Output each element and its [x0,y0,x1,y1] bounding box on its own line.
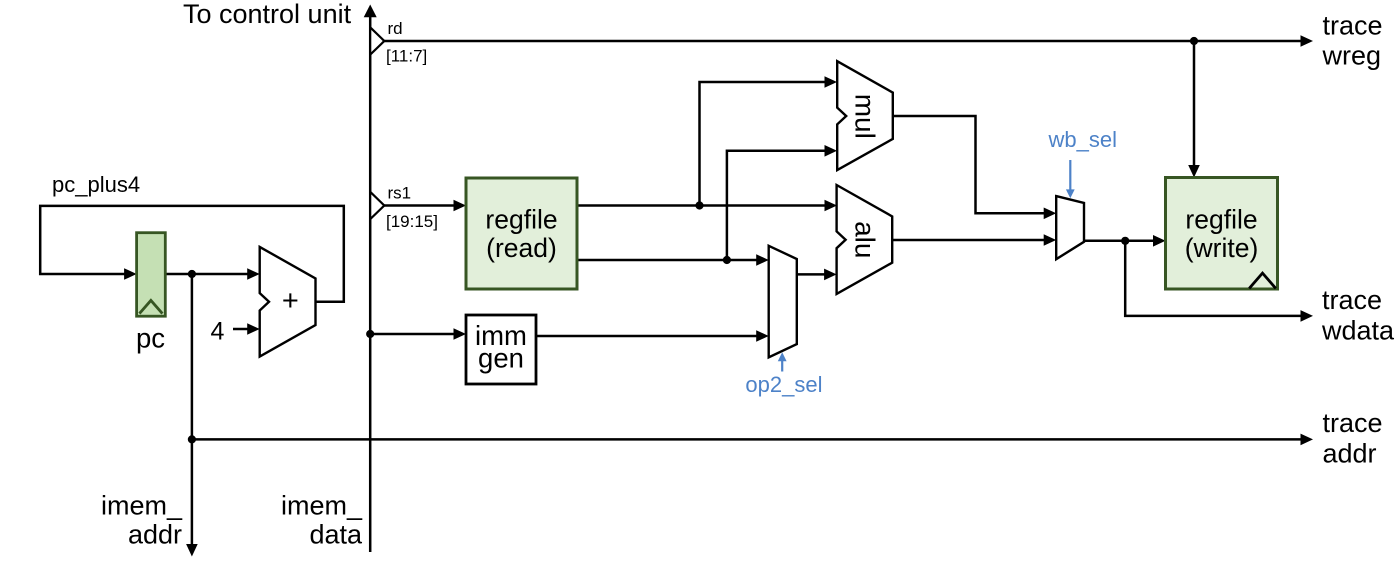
regfile (read) U-rfread [466,178,577,289]
svg-text:gen: gen [478,343,524,374]
svg-text:regfile: regfile [485,205,557,235]
wire: wb mux output to regfile write [1084,240,1162,243]
wire: branch up to mul input 2 [727,151,833,260]
junction: imm gen branch on imem_data [366,330,374,338]
svg-text:trace: trace [1323,10,1383,40]
register pc [136,233,165,354]
wire: pc output to adder input [165,273,256,276]
wire: rd down into regfile (write) [1193,41,1196,167]
svg-text:alu: alu [850,221,881,258]
wire: regfile read output 1 to alu input 1 [577,204,833,207]
wire: imem_addr vertical (pc output down to bottom) [191,274,194,546]
mux wb_sel [1048,127,1117,259]
wire: alu output to wb mux input 2 [893,239,1052,242]
junction: pc output node [188,270,196,278]
svg-text:wb_sel: wb_sel [1048,127,1117,152]
svg-text:addr: addr [128,520,182,550]
svg-text:imem_: imem_ [281,491,363,521]
imm gen [466,315,536,384]
svg-text:op2_sel: op2_sel [745,372,822,397]
junction: rd branch to regfile write [1190,37,1198,45]
wire: constant 4 into adder [233,328,256,331]
svg-text:trace: trace [1322,285,1382,315]
svg-text:wdata: wdata [1321,316,1395,346]
svg-text:+: + [282,285,299,317]
alu [837,185,893,294]
wire: trace addr horizontal [192,438,1309,441]
wire: imm gen output to op2 mux input 2 [536,335,765,338]
svg-text:regfile: regfile [1185,205,1257,235]
svg-text:4: 4 [211,318,225,346]
svg-text:[11:7]: [11:7] [386,47,427,66]
wire: pc_plus4 feedback loop (adder output to pc input) [40,206,344,302]
tap: rs1 field [19:15] [370,184,438,232]
junction: rs2 data branch to mul [723,256,731,264]
svg-text:trace: trace [1323,408,1383,438]
regfile (write) U-rfwrite [1166,178,1278,290]
adder [260,247,316,357]
svg-text:pc: pc [136,323,165,354]
wire: op2 mux output to alu input 2 [797,273,833,276]
junction: wdata branch [1121,237,1129,245]
junction: rs1 data branch to mul [695,201,703,209]
svg-text:[19:15]: [19:15] [386,212,438,231]
wire: branch up to mul input 1 [700,82,834,206]
junction: trace addr branch node [188,435,196,443]
svg-text:rd: rd [388,19,403,38]
svg-text:wreg: wreg [1322,41,1382,71]
svg-text:(write): (write) [1185,233,1259,263]
wire: trace wdata [1125,241,1309,316]
wire: rs1 into regfile (read) [384,204,462,207]
mux op2_sel [745,246,822,397]
svg-text:imem_: imem_ [101,491,183,521]
svg-text:To control unit: To control unit [183,0,352,29]
mul unit [837,61,893,170]
tap: rd field [11:7] [370,19,427,66]
svg-text:pc_plus4: pc_plus4 [52,172,140,197]
svg-text:(read): (read) [486,233,557,263]
wire: imem_data vertical bus (to control unit) [369,14,372,552]
svg-text:addr: addr [1323,439,1377,469]
svg-text:data: data [309,520,363,550]
wire: rd to trace wreg [384,40,1309,43]
svg-text:mul: mul [850,94,881,139]
svg-text:rs1: rs1 [388,184,412,203]
wire: regfile read output 2 to op2 mux input 1 [577,259,765,262]
wire: mul output to wb mux input 1 [893,116,1052,213]
wire: imem_data into imm gen [370,333,462,336]
